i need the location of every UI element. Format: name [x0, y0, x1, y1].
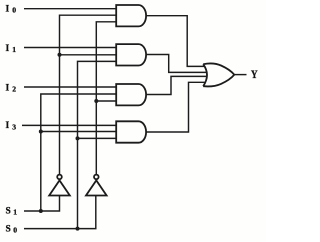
wire gate4 output to OR: [146, 82, 204, 132]
not-gate N2 triangle (S0 inverter): [86, 180, 107, 195]
svg-text:I: I: [6, 121, 10, 131]
junction dot A/gate4-mid: [39, 130, 43, 134]
wire I0 horizontal: [24, 8, 116, 10]
not-gate N1 triangle (S1 inverter): [49, 180, 70, 195]
wire gate4 bottom input branch: [78, 137, 117, 139]
junction dot C/gate4-bottom: [76, 136, 80, 140]
wire vertical D (NOT2 output S0' up to gate1 bottom input): [96, 22, 116, 175]
wire S1 horizontal: [24, 196, 60, 211]
wire vertical B (NOT1 output S1' up to gate1 mid input): [60, 15, 117, 175]
svg-text:S: S: [6, 207, 11, 217]
wire vertical C (S0 line up to gate2 bottom input): [78, 61, 117, 228]
junction dot S1/A: [39, 209, 43, 213]
and-gate G1 (I0): [116, 5, 146, 26]
svg-text:I: I: [6, 83, 10, 93]
wire vertical A (S1 line up to gate3 mid input): [41, 94, 116, 211]
wire gate4 mid input branch: [41, 131, 116, 133]
svg-text:0: 0: [12, 6, 16, 15]
wire gate2 mid input branch: [60, 54, 117, 56]
junction dot B/gate2-mid: [58, 53, 62, 57]
wire gate3 bottom input branch: [96, 100, 116, 102]
and-gate G4 (I3): [116, 121, 146, 142]
wire gate2 output to OR: [146, 55, 207, 73]
junction dot S0/C: [76, 227, 80, 231]
svg-text:3: 3: [12, 122, 16, 131]
or-gate U5: [203, 63, 234, 86]
wire I1 horizontal: [24, 47, 116, 49]
svg-text:1: 1: [12, 45, 16, 54]
svg-text:S: S: [6, 224, 11, 234]
svg-text:0: 0: [13, 226, 17, 235]
svg-text:Y: Y: [251, 69, 258, 81]
junction dot D/gate3-bottom: [94, 99, 98, 103]
wire OR output to Y: [234, 74, 246, 76]
not-gate N1 bubble: [57, 175, 62, 180]
svg-text:1: 1: [13, 208, 17, 217]
svg-text:I: I: [6, 5, 10, 15]
svg-text:2: 2: [12, 85, 16, 94]
wire gate1 output to OR: [146, 16, 204, 67]
not-gate N2 bubble: [94, 175, 99, 180]
wire I3 horizontal: [22, 124, 116, 126]
svg-text:I: I: [6, 44, 10, 54]
and-gate G3 (I2): [116, 84, 146, 105]
and-gate G2 (I1): [116, 44, 146, 65]
wire gate3 output to OR: [146, 76, 207, 94]
wire S0 horizontal: [24, 195, 96, 228]
wire I2 horizontal: [24, 86, 116, 88]
